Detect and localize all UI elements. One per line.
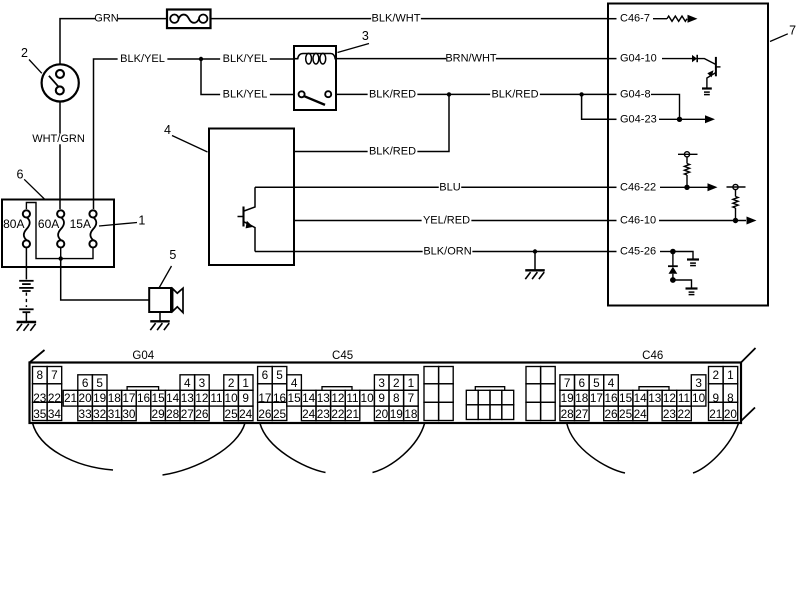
svg-text:BLK/YEL: BLK/YEL xyxy=(223,88,268,100)
svg-text:22: 22 xyxy=(677,407,690,421)
svg-text:22: 22 xyxy=(331,407,344,421)
svg-text:11: 11 xyxy=(678,391,690,405)
svg-text:10: 10 xyxy=(361,391,375,405)
svg-text:12: 12 xyxy=(331,391,344,405)
svg-text:9: 9 xyxy=(378,391,385,405)
svg-text:28: 28 xyxy=(166,407,180,421)
svg-text:19: 19 xyxy=(93,391,106,405)
svg-text:G04-10: G04-10 xyxy=(620,53,657,65)
svg-text:24: 24 xyxy=(634,407,648,421)
svg-text:15: 15 xyxy=(152,391,166,405)
svg-text:BLU: BLU xyxy=(439,181,460,193)
svg-text:6: 6 xyxy=(82,376,89,390)
svg-text:2: 2 xyxy=(393,376,400,390)
svg-text:GRN: GRN xyxy=(94,13,119,25)
svg-text:16: 16 xyxy=(604,391,618,405)
svg-text:4: 4 xyxy=(608,376,615,390)
svg-text:G04: G04 xyxy=(132,350,154,362)
svg-text:BLK/RED: BLK/RED xyxy=(369,88,416,100)
svg-text:23: 23 xyxy=(663,407,677,421)
svg-text:6: 6 xyxy=(579,376,586,390)
svg-text:27: 27 xyxy=(575,407,588,421)
svg-text:BLK/RED: BLK/RED xyxy=(369,146,416,158)
svg-text:35: 35 xyxy=(33,407,47,421)
svg-text:15: 15 xyxy=(288,391,302,405)
svg-text:8: 8 xyxy=(37,368,44,382)
svg-text:G04-8: G04-8 xyxy=(620,88,651,100)
svg-text:18: 18 xyxy=(575,391,589,405)
svg-text:WHT/GRN: WHT/GRN xyxy=(32,133,85,145)
svg-text:20: 20 xyxy=(79,391,93,405)
svg-text:C46-10: C46-10 xyxy=(620,215,656,227)
svg-text:5: 5 xyxy=(276,368,283,382)
svg-text:2: 2 xyxy=(21,46,28,60)
svg-text:24: 24 xyxy=(302,407,316,421)
svg-text:C45-26: C45-26 xyxy=(620,246,656,258)
svg-text:BLK/ORN: BLK/ORN xyxy=(423,246,471,258)
svg-text:28: 28 xyxy=(561,407,575,421)
svg-text:7: 7 xyxy=(51,368,58,382)
svg-text:1: 1 xyxy=(242,376,249,390)
svg-text:BLK/WHT: BLK/WHT xyxy=(372,13,421,25)
svg-text:2: 2 xyxy=(228,376,235,390)
svg-text:31: 31 xyxy=(108,407,121,421)
svg-text:14: 14 xyxy=(166,391,180,405)
svg-text:7: 7 xyxy=(408,391,415,405)
svg-text:24: 24 xyxy=(239,407,253,421)
svg-text:14: 14 xyxy=(302,391,316,405)
svg-text:27: 27 xyxy=(181,407,194,421)
svg-text:11: 11 xyxy=(346,391,358,405)
svg-text:16: 16 xyxy=(137,391,151,405)
svg-text:19: 19 xyxy=(561,391,574,405)
svg-text:YEL/RED: YEL/RED xyxy=(423,215,470,227)
svg-text:BLK/YEL: BLK/YEL xyxy=(223,53,268,65)
svg-text:21: 21 xyxy=(346,407,359,421)
svg-text:26: 26 xyxy=(195,407,209,421)
svg-text:20: 20 xyxy=(724,407,738,421)
svg-text:10: 10 xyxy=(225,391,239,405)
svg-text:29: 29 xyxy=(152,407,165,421)
svg-text:25: 25 xyxy=(619,407,633,421)
svg-text:15: 15 xyxy=(619,391,633,405)
svg-text:12: 12 xyxy=(195,391,208,405)
svg-text:17: 17 xyxy=(122,391,135,405)
svg-text:6: 6 xyxy=(17,168,24,182)
svg-text:25: 25 xyxy=(225,407,239,421)
svg-text:4: 4 xyxy=(184,376,191,390)
svg-text:C46-7: C46-7 xyxy=(620,13,650,25)
svg-text:5: 5 xyxy=(169,248,176,262)
svg-text:BLK/YEL: BLK/YEL xyxy=(120,53,165,65)
svg-text:4: 4 xyxy=(164,123,171,137)
svg-text:9: 9 xyxy=(242,391,249,405)
svg-text:C46: C46 xyxy=(642,350,663,362)
svg-text:21: 21 xyxy=(64,391,77,405)
svg-text:13: 13 xyxy=(181,391,195,405)
svg-text:8: 8 xyxy=(393,391,400,405)
svg-text:C46-22: C46-22 xyxy=(620,181,656,193)
svg-text:3: 3 xyxy=(362,29,369,43)
svg-text:18: 18 xyxy=(404,407,418,421)
svg-text:33: 33 xyxy=(79,407,93,421)
svg-text:1: 1 xyxy=(727,368,734,382)
svg-text:6: 6 xyxy=(262,368,269,382)
svg-text:3: 3 xyxy=(695,376,702,390)
svg-text:1: 1 xyxy=(138,214,145,228)
svg-text:80A: 80A xyxy=(3,217,24,231)
svg-text:7: 7 xyxy=(564,376,571,390)
svg-text:32: 32 xyxy=(93,407,106,421)
svg-text:1: 1 xyxy=(408,376,415,390)
svg-text:C45: C45 xyxy=(332,350,353,362)
svg-text:26: 26 xyxy=(604,407,618,421)
svg-text:4: 4 xyxy=(291,376,298,390)
svg-text:30: 30 xyxy=(122,407,136,421)
svg-text:12: 12 xyxy=(663,391,676,405)
svg-text:15A: 15A xyxy=(70,217,91,231)
svg-text:3: 3 xyxy=(199,376,206,390)
svg-text:7: 7 xyxy=(789,24,796,38)
svg-text:17: 17 xyxy=(590,391,603,405)
svg-text:BRN/WHT: BRN/WHT xyxy=(445,53,497,65)
svg-text:2: 2 xyxy=(713,368,720,382)
svg-text:25: 25 xyxy=(273,407,287,421)
svg-text:11: 11 xyxy=(210,391,222,405)
svg-text:BLK/RED: BLK/RED xyxy=(491,88,538,100)
svg-text:23: 23 xyxy=(317,407,331,421)
svg-text:13: 13 xyxy=(317,391,331,405)
svg-text:5: 5 xyxy=(593,376,600,390)
svg-text:60A: 60A xyxy=(38,217,59,231)
svg-text:G04-23: G04-23 xyxy=(620,113,657,125)
svg-text:10: 10 xyxy=(692,391,706,405)
svg-text:18: 18 xyxy=(108,391,122,405)
svg-text:14: 14 xyxy=(634,391,648,405)
svg-text:3: 3 xyxy=(378,376,385,390)
svg-text:19: 19 xyxy=(390,407,403,421)
svg-text:5: 5 xyxy=(96,376,103,390)
svg-text:26: 26 xyxy=(258,407,272,421)
svg-text:13: 13 xyxy=(648,391,662,405)
svg-text:34: 34 xyxy=(48,407,62,421)
svg-text:20: 20 xyxy=(375,407,389,421)
svg-text:21: 21 xyxy=(709,407,722,421)
